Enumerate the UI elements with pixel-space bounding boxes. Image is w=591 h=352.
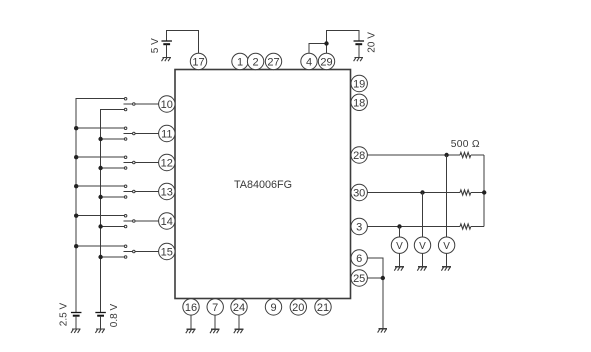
battery 20 V (354, 41, 365, 44)
pin 16 (183, 299, 199, 315)
wire 2.5V bus to switch S4 upper contact (76, 185, 124, 187)
wire 5V battery to pin 17 (167, 30, 199, 53)
wire voltmeter V1 to ground (399, 253, 401, 266)
wire 2.5V bus to switch S6 upper contact (76, 245, 124, 247)
wire pin 30 to resistor R2 (367, 192, 460, 194)
svg-text:19: 19 (353, 79, 365, 91)
pin 6 (351, 250, 367, 266)
pin 11 (159, 125, 175, 141)
wire voltmeter V2 to ground (422, 253, 424, 266)
svg-text:25: 25 (353, 273, 365, 285)
switch S4 (pin 13) (123, 185, 135, 198)
wire 2.5 V bus (76, 99, 124, 313)
svg-text:20 V: 20 V (367, 32, 378, 53)
junction 0.8V bus / S2 (98, 137, 102, 141)
switch S3 (pin 12) (123, 156, 135, 169)
svg-text:4: 4 (306, 57, 312, 69)
wire pin 25 to ground rail (367, 277, 382, 279)
svg-text:2.5 V: 2.5 V (59, 303, 70, 327)
wire 0.8V battery to ground (100, 316, 102, 329)
junction pin3 line / voltmeter V1 (397, 224, 401, 228)
junction 0.8V bus / S5 (98, 224, 102, 228)
pin 10 (159, 96, 175, 112)
wire pin 6 to ground rail (367, 258, 382, 329)
svg-text:5 V: 5 V (150, 38, 161, 53)
wire switch S3 pole to pin 12 (135, 162, 158, 164)
wire pin 28 to resistor R1 (367, 154, 460, 156)
ground (voltmeter V2) (417, 267, 427, 271)
svg-text:TA84006FG: TA84006FG (234, 179, 292, 191)
ground (2.5 V battery) (71, 329, 81, 333)
svg-text:V: V (396, 241, 403, 252)
svg-text:10: 10 (161, 99, 173, 111)
ground (20 V battery) (354, 57, 364, 61)
switch S6 (pin 15) (123, 245, 135, 258)
wire R1 to right bus (471, 154, 484, 156)
wire 0.8 V bus (101, 110, 125, 313)
svg-text:500 Ω: 500 Ω (451, 139, 480, 150)
svg-text:16: 16 (185, 302, 197, 314)
ground (pin 24) (234, 329, 244, 333)
wire pin 4 to node above pin 29 (309, 44, 327, 54)
svg-text:14: 14 (161, 216, 173, 228)
wire pin 24 to ground (238, 315, 240, 329)
pin 2 (247, 53, 263, 69)
svg-text:20: 20 (292, 302, 304, 314)
IC U1 TA84006FG body (175, 70, 351, 299)
wire switch S6 pole to pin 15 (135, 251, 158, 253)
wire 2.5V bus to switch S3 upper contact (76, 156, 124, 158)
junction pin4/pin29 node (324, 41, 328, 45)
junction pin30 line / voltmeter V2 (420, 190, 424, 194)
svg-text:V: V (443, 241, 450, 252)
voltmeter V3 (438, 237, 454, 253)
pin 21 (315, 299, 331, 315)
wire 2.5V bus to switch S5 upper contact (76, 215, 124, 217)
pin 4 (301, 53, 317, 69)
svg-text:30: 30 (353, 188, 365, 200)
junction pin28 line / voltmeter V3 (444, 153, 448, 157)
ground (pins 6/25) (378, 329, 388, 333)
junction 0.8V bus / S4 (98, 195, 102, 199)
svg-text:29: 29 (320, 57, 332, 69)
pin 29 (318, 53, 334, 69)
wire 0.8V bus to switch S6 lower contact (101, 256, 125, 258)
wire switch S4 pole to pin 13 (135, 191, 158, 193)
svg-text:V: V (419, 241, 426, 252)
wire 5V battery negative to ground (166, 44, 168, 57)
battery 5 V (161, 41, 172, 44)
battery 0.8 V (95, 313, 106, 316)
svg-text:13: 13 (161, 187, 173, 199)
voltmeter V2 (414, 237, 430, 253)
pin 15 (159, 243, 175, 259)
junction right bus / R2 (482, 190, 486, 194)
junction 2.5V bus / S2 (74, 126, 78, 130)
wire pin 29 to 20V battery (327, 31, 359, 54)
wire R3 to right bus (471, 226, 484, 228)
junction 2.5V bus / S5 (74, 214, 78, 218)
wire pin 7 to ground (214, 315, 216, 329)
svg-text:9: 9 (270, 302, 276, 314)
pin 14 (159, 213, 175, 229)
switch S2 (pin 11) (123, 127, 135, 140)
wire pin 16 to ground (190, 315, 192, 329)
svg-text:2: 2 (253, 57, 259, 69)
wire right bus (R1-R2-R3) (483, 155, 485, 227)
wire 20V battery negative to ground (358, 44, 360, 57)
pin 25 (351, 270, 367, 286)
battery 2.5 V (71, 313, 82, 316)
switch S5 (pin 14) (123, 214, 135, 227)
svg-text:12: 12 (161, 158, 173, 170)
wire voltmeter V1 to pin3 line (399, 227, 401, 238)
junction 0.8V bus / S3 (98, 166, 102, 170)
ground (5 V battery) (162, 57, 172, 61)
svg-text:28: 28 (353, 150, 365, 162)
ground (pin 7) (210, 329, 220, 333)
pin 19 (351, 75, 367, 91)
pin 9 (265, 299, 281, 315)
svg-text:15: 15 (161, 247, 173, 259)
ground (voltmeter V3) (441, 267, 451, 271)
pin 13 (159, 183, 175, 199)
voltmeter V1 (391, 237, 407, 253)
svg-text:17: 17 (192, 57, 204, 69)
pin 18 (351, 94, 367, 110)
resistor R1 500 ohm (460, 152, 471, 157)
ground (pin 16) (186, 329, 196, 333)
pin 7 (207, 299, 223, 315)
wire pin 3 to resistor R3 (367, 226, 460, 228)
junction 2.5V bus / S4 (74, 184, 78, 188)
junction 0.8V bus / S6 (98, 255, 102, 259)
pin 20 (290, 299, 306, 315)
svg-text:24: 24 (233, 302, 245, 314)
ground (voltmeter V1) (394, 267, 404, 271)
wire 2.5V battery to ground (75, 316, 77, 329)
wire switch S5 pole to pin 14 (135, 220, 158, 222)
pin 12 (159, 154, 175, 170)
wire voltmeter V3 to ground (446, 253, 448, 266)
svg-text:7: 7 (212, 302, 218, 314)
wire 0.8V bus to switch S4 lower contact (101, 196, 125, 198)
svg-text:18: 18 (353, 97, 365, 109)
switch S1 (pin 10) (123, 97, 135, 110)
junction pin25 / pin6 rail (381, 276, 385, 280)
svg-text:3: 3 (356, 222, 362, 234)
junction 2.5V bus / S6 (74, 244, 78, 248)
ground (0.8 V battery) (95, 329, 105, 333)
pin 30 (351, 184, 367, 200)
svg-text:1: 1 (237, 57, 243, 69)
wire switch S1 pole to pin 10 (135, 103, 158, 105)
pin 3 (351, 218, 367, 234)
pin 28 (351, 147, 367, 163)
junction 2.5V bus / S3 (74, 155, 78, 159)
svg-text:27: 27 (267, 57, 279, 69)
wire 0.8V bus to switch S2 lower contact (101, 138, 125, 140)
wire voltmeter V3 to pin28 line (446, 155, 448, 237)
svg-text:11: 11 (161, 129, 172, 141)
svg-text:6: 6 (356, 253, 362, 265)
wire 2.5V bus to switch S2 upper contact (76, 127, 124, 129)
wire 0.8V bus to switch S3 lower contact (101, 167, 125, 169)
resistor R2 (460, 190, 471, 195)
pin 24 (231, 299, 247, 315)
pin 27 (265, 53, 281, 69)
resistor R3 (460, 224, 471, 229)
wire R2 to right bus (471, 192, 484, 194)
wire switch S2 pole to pin 11 (135, 133, 158, 135)
wire 0.8V bus to switch S5 lower contact (101, 226, 125, 228)
svg-text:21: 21 (317, 302, 329, 314)
wire voltmeter V2 to pin30 line (422, 193, 424, 238)
pin 1 (232, 53, 248, 69)
svg-text:0.8 V: 0.8 V (109, 304, 120, 328)
pin 17 (190, 53, 206, 69)
